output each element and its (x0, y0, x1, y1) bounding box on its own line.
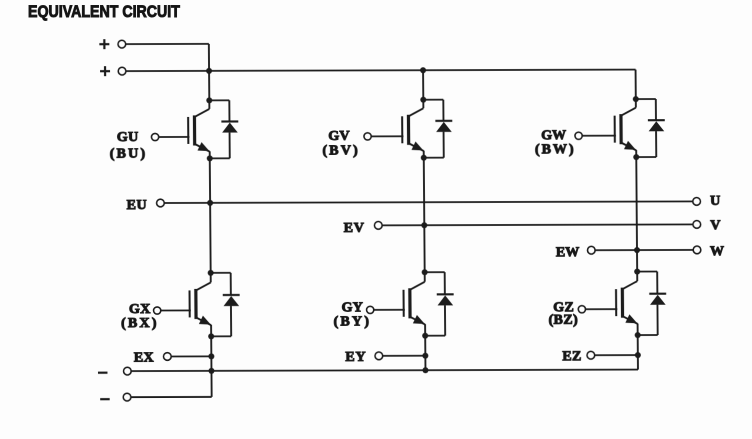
wire gate lead GX (161, 309, 191, 311)
wire EZ row (595, 354, 638, 356)
transistor GZ (IGBT) (616, 281, 638, 324)
diode DU (free-wheel) (209, 100, 238, 158)
node emitter GU (207, 155, 213, 161)
svg-text:V: V (710, 218, 720, 233)
transistor GV (IGBT) (402, 108, 424, 151)
node collector GV (420, 97, 426, 103)
node emitter GZ (635, 332, 641, 338)
node collector GY (422, 269, 428, 275)
terminal W (693, 246, 701, 254)
terminal GV (364, 133, 371, 140)
terminal GY (367, 306, 374, 313)
wire leg W middle section (636, 150, 637, 281)
node EZ / leg W (635, 352, 641, 358)
transistor GU (IGBT) (188, 109, 210, 152)
node + bus / leg U (206, 68, 212, 74)
wire leg W collector section (635, 70, 637, 108)
diode DZ (free-wheel) (637, 272, 666, 336)
svg-text:GW: GW (541, 128, 566, 143)
terminal EW (587, 246, 595, 254)
svg-text:U: U (710, 194, 720, 209)
wire EW–W row (595, 249, 693, 251)
wire leg U middle section (210, 151, 211, 282)
svg-text:EX: EX (134, 351, 154, 366)
svg-text:(BW): (BW) (535, 142, 576, 157)
terminal U (693, 198, 701, 206)
node EW / leg W (634, 247, 640, 253)
node EX / leg U (208, 353, 214, 359)
wire + bus (126, 70, 636, 72)
node EV / leg V (421, 222, 427, 228)
node collector GZ (634, 269, 640, 275)
diode DY (free-wheel) (425, 272, 454, 336)
terminal − (N, lower) (100, 393, 131, 401)
node emitter GV (421, 155, 427, 161)
node collector GX (208, 270, 214, 276)
wire EU–U row (164, 201, 693, 203)
transistor GX (IGBT) (189, 282, 211, 325)
node collector GW (633, 96, 639, 102)
svg-text:(BY): (BY) (334, 314, 372, 329)
svg-text:(BV): (BV) (322, 143, 360, 158)
terminal + (P, bus) (100, 66, 126, 76)
svg-text:EZ: EZ (562, 349, 581, 364)
wire leg V middle section (424, 151, 425, 282)
node emitter GW (633, 154, 639, 160)
diode DV (free-wheel) (423, 100, 452, 158)
diode DW (free-wheel) (636, 99, 665, 157)
node emitter GY (422, 333, 428, 339)
transistor GW (IGBT) (615, 108, 637, 151)
wire gate lead GZ (585, 308, 617, 310)
terminal − (N, bus) (98, 367, 131, 375)
node emitter GX (208, 333, 214, 339)
node − bus / leg U (208, 368, 214, 374)
svg-text:GX: GX (129, 302, 151, 317)
node + bus / leg V (420, 67, 426, 73)
svg-text:EW: EW (556, 245, 579, 260)
terminal EZ (587, 351, 595, 359)
wire gate lead GV (371, 135, 403, 137)
wire leg U bottom section (210, 325, 213, 397)
terminal EX (164, 353, 172, 361)
wire − bus (131, 370, 638, 372)
svg-text:EQUIVALENT CIRCUIT: EQUIVALENT CIRCUIT (28, 3, 180, 21)
wire leg U collector section (208, 44, 211, 109)
terminal + (P, upper) (99, 39, 125, 49)
terminal GZ (578, 306, 585, 313)
diode DX (free-wheel) (211, 273, 240, 337)
svg-text:EU: EU (127, 198, 148, 213)
svg-text:GY: GY (342, 300, 364, 315)
terminal EU (157, 199, 165, 207)
svg-text:(BU): (BU) (110, 147, 148, 162)
terminal GW (575, 132, 582, 139)
wire leg V bottom section (424, 324, 426, 370)
wire leg V collector section (422, 70, 424, 108)
wire gate lead GW (582, 135, 616, 137)
terminal V (693, 221, 701, 229)
svg-text:GV: GV (328, 129, 350, 144)
terminal EY (375, 352, 383, 360)
transistor GY (IGBT) (403, 282, 425, 325)
wire EV–V row (382, 223, 693, 226)
wire leg W bottom section (637, 324, 639, 370)
wire EY row (383, 355, 426, 357)
svg-text:EY: EY (345, 350, 366, 365)
svg-text:(BZ): (BZ) (549, 313, 579, 328)
wire gate lead GY (374, 309, 405, 311)
wire gate lead GU (158, 136, 189, 138)
node collector GU (206, 97, 212, 103)
wire + upper to leg1 (125, 43, 208, 45)
node − bus / leg V (422, 367, 428, 373)
wire EX row (171, 355, 211, 357)
terminal GU (151, 133, 158, 140)
node EY / leg V (422, 353, 428, 359)
wire − lower to leg1 (131, 396, 212, 398)
svg-text:(BX): (BX) (121, 316, 159, 331)
svg-text:W: W (710, 244, 724, 259)
terminal EV (374, 222, 382, 230)
terminal GX (154, 307, 161, 314)
node EU / leg U (207, 200, 213, 206)
svg-text:GU: GU (117, 130, 139, 145)
svg-text:EV: EV (344, 221, 365, 236)
